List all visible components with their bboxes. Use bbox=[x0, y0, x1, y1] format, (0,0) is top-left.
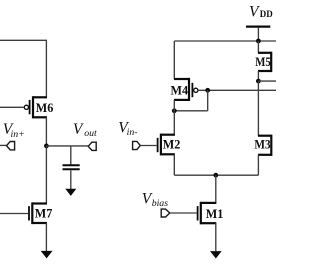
wire M4 gate to right edge bbox=[198, 89, 276, 91]
wire M3 source down to tail bbox=[257, 155, 259, 175]
wire M5 drain down to node bbox=[257, 71, 259, 81]
node M5 drain junction dot bbox=[256, 79, 261, 84]
label M7 bbox=[35, 207, 53, 221]
wire top rail horizontal bbox=[174, 40, 276, 42]
svg-text:in+: in+ bbox=[11, 129, 25, 140]
label Vin+ bbox=[3, 121, 14, 138]
wire Vbias port to M1 gate bbox=[170, 212, 197, 214]
wire output node down to M7 drain bbox=[45, 146, 47, 204]
svg-text:V: V bbox=[249, 4, 260, 21]
svg-text:in-: in- bbox=[127, 127, 138, 138]
transistor M4 (PMOS, gate on right) bbox=[174, 78, 198, 101]
ground (M1) bbox=[210, 251, 222, 258]
wire M5 drain node down to M3 drain bbox=[257, 81, 259, 136]
transistor M7 (NMOS) bbox=[29, 202, 47, 224]
wire M7 source down bbox=[45, 223, 47, 251]
wire M2 source down to tail bbox=[173, 154, 175, 175]
ground (capacitor) bbox=[65, 189, 76, 196]
svg-text:bias: bias bbox=[152, 198, 169, 209]
node VDD rail junction dot bbox=[256, 39, 261, 44]
svg-text:M7: M7 bbox=[35, 207, 53, 221]
wire tail horizontal bbox=[174, 174, 258, 176]
wire M4 gate-drain tie vertical bbox=[207, 90, 209, 111]
node M4 gate junction dot bbox=[205, 88, 210, 93]
port Vin+ (left-pointing pentagon) bbox=[7, 142, 15, 150]
transistor M1 (NMOS) bbox=[198, 202, 217, 225]
capacitor load bbox=[63, 165, 80, 169]
label VDD bbox=[249, 4, 260, 21]
port Vout (left-pointing pentagon) bbox=[88, 142, 96, 150]
svg-text:M2: M2 bbox=[163, 138, 181, 152]
wire M6 source down to output node bbox=[45, 117, 47, 146]
svg-text:out: out bbox=[84, 128, 97, 139]
wire left rail vertical down to M6 drain bbox=[45, 40, 47, 97]
svg-text:V: V bbox=[73, 121, 84, 138]
label M2 bbox=[163, 138, 181, 152]
wire M6 gate to left edge bbox=[0, 106, 24, 108]
port Vbias (right-pointing pentagon) bbox=[161, 209, 170, 217]
wire M1 source down bbox=[215, 223, 217, 251]
ground (M7) bbox=[41, 251, 53, 259]
transistor M6 (PMOS) bbox=[24, 96, 47, 118]
svg-text:M1: M1 bbox=[206, 207, 224, 221]
label M6 bbox=[36, 101, 54, 115]
transistor M5 (PMOS, gate on right, cropped) bbox=[258, 52, 271, 72]
port Vin- (right-pointing pentagon) bbox=[133, 141, 141, 149]
wire VDD bar to rail bbox=[257, 28, 259, 41]
wire output node to Vout port bbox=[46, 145, 88, 147]
svg-text:M5: M5 bbox=[255, 56, 271, 69]
transistor M2 (NMOS) bbox=[158, 134, 175, 156]
label M5 bbox=[255, 56, 271, 69]
svg-text:M3: M3 bbox=[254, 138, 270, 152]
svg-text:M6: M6 bbox=[36, 101, 54, 115]
label Vbias bbox=[142, 191, 153, 208]
wire M4 gate-drain tie horizontal bbox=[174, 110, 207, 112]
wire left rail top horizontal bbox=[0, 39, 47, 41]
wire output node down-branch to capacitor bbox=[70, 146, 72, 165]
label M1 bbox=[206, 207, 224, 221]
transistor M3 (NMOS, gate on right, cropped) bbox=[258, 135, 271, 156]
label Vout bbox=[73, 121, 84, 138]
wire rail down to M4 source bbox=[173, 41, 175, 79]
label M4 bbox=[171, 84, 189, 98]
wire Vin+ port stub to left edge bbox=[0, 144, 7, 146]
wire Vin- port to M2 gate bbox=[140, 145, 156, 147]
wire M5 drain node to right edge bbox=[258, 80, 276, 82]
wire M4 drain down to M2 drain bbox=[173, 100, 175, 135]
label Vin- bbox=[118, 120, 129, 137]
node tail junction dot bbox=[213, 173, 218, 178]
label M3 bbox=[254, 138, 270, 152]
wire tail down to M1 drain bbox=[215, 175, 217, 203]
wire M7 gate to left edge bbox=[0, 213, 28, 215]
node output junction dot bbox=[44, 144, 49, 149]
svg-text:M4: M4 bbox=[171, 84, 189, 98]
svg-text:DD: DD bbox=[260, 9, 273, 19]
wire capacitor to ground bbox=[70, 170, 72, 189]
supply VDD bar bbox=[246, 26, 270, 28]
node M4 drain junction dot bbox=[172, 108, 177, 113]
wire rail down to M5 source bbox=[257, 41, 259, 53]
